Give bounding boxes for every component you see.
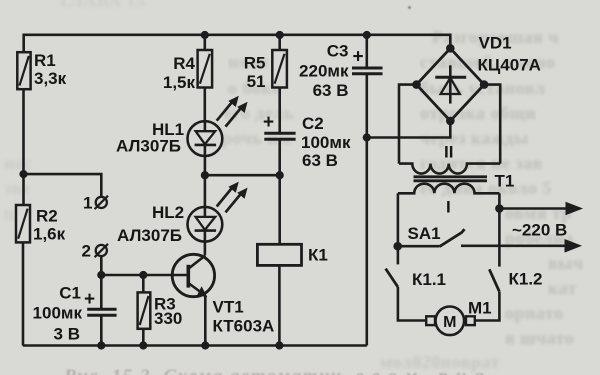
transformer T1 winding II — [399, 164, 500, 174]
arrowhead HL2 lower — [237, 188, 247, 199]
arrowhead HL2 upper — [228, 182, 238, 193]
junction dot node A left — [201, 171, 209, 179]
motor M1 body — [436, 307, 465, 336]
svg-text:63 В: 63 В — [313, 81, 349, 100]
junction dot 220V node — [495, 204, 504, 213]
svg-text:М1: М1 — [468, 299, 492, 318]
wire HL1 to node A — [204, 156, 207, 175]
svg-text:100мк: 100мк — [33, 304, 83, 323]
svg-text:АЛ307Б: АЛ307Б — [117, 226, 182, 245]
svg-text:КТ603А: КТ603А — [213, 317, 275, 336]
wire 220V bottom lead — [461, 245, 566, 248]
wire bridge bottom vertex to C3 column — [367, 121, 451, 138]
svg-text:Т1: Т1 — [495, 172, 515, 191]
svg-text:HL2: HL2 — [152, 203, 184, 222]
svg-text:R4: R4 — [173, 54, 195, 73]
relay coil K1 — [257, 244, 301, 265]
arrowhead 220V bottom — [565, 239, 583, 253]
motor M1 right terminal — [466, 316, 475, 325]
svg-text:R2: R2 — [36, 207, 58, 226]
wire bridge right vertex to winding II right riser — [484, 85, 500, 164]
transformer T1 winding I — [398, 184, 500, 194]
junction dot rectified node — [363, 133, 371, 141]
wire HL2 to VT1 collector — [204, 242, 207, 256]
junction dot R1 R2 terminal1 — [19, 170, 27, 178]
svg-text:КЦ407А: КЦ407А — [478, 56, 541, 75]
contact K1.1 upper lead — [397, 246, 400, 264]
wire base line — [101, 274, 186, 277]
resistor R1 — [17, 52, 30, 89]
svg-text:К1.1: К1.1 — [412, 270, 446, 289]
svg-text:220мк: 220мк — [299, 62, 349, 81]
junction dot SA1 node — [393, 242, 402, 251]
wire K1 to bottom bus — [278, 265, 281, 345]
arrowhead HL1 lower — [237, 102, 247, 113]
wire node A to C2 column — [205, 174, 280, 177]
svg-text:~220 В: ~220 В — [512, 221, 567, 240]
wire C1 bottom stub — [100, 315, 103, 345]
wire R5 to C2 — [278, 88, 281, 134]
resistor R2 — [16, 205, 30, 242]
svg-text:М: М — [443, 314, 456, 331]
contact K1.1 lower lead to motor — [398, 287, 426, 321]
svg-text:К1: К1 — [308, 246, 328, 265]
junction dot base R3 — [139, 271, 147, 279]
svg-text:1,6к: 1,6к — [33, 225, 66, 244]
svg-text:100мк: 100мк — [301, 133, 351, 152]
wire R2 to bottom bus — [22, 242, 25, 345]
wire C1 top stub — [100, 275, 103, 309]
junction dot bridge bottom — [446, 117, 455, 126]
wire R4 to HL1 — [204, 88, 207, 122]
junction dot bridge top — [446, 44, 455, 53]
junction dot bus K1 — [275, 341, 283, 349]
wire terminal 2 to base node — [100, 256, 103, 275]
svg-text:R5: R5 — [244, 54, 266, 73]
wire R3 top stub — [142, 275, 145, 292]
svg-text:С1: С1 — [59, 284, 81, 303]
terminal 1 pin — [96, 197, 107, 208]
capacitor C3 — [352, 68, 383, 74]
capacitor C1 — [87, 309, 116, 315]
svg-text:R1: R1 — [34, 51, 56, 70]
arrowhead HL1 upper — [228, 96, 238, 107]
wire 220V top lead — [499, 207, 567, 210]
svg-text:+: + — [353, 47, 364, 68]
svg-text:51: 51 — [247, 72, 266, 91]
wire right column C3 lower — [365, 75, 368, 346]
transistor VT1 — [172, 254, 214, 296]
junction dot bridge right — [480, 80, 489, 89]
svg-text:VT1: VT1 — [213, 298, 244, 317]
svg-text:II: II — [444, 143, 453, 162]
svg-text:С3: С3 — [327, 42, 349, 61]
contact K1.2 upper lead — [498, 209, 501, 267]
contact K1.1 blade — [386, 269, 398, 287]
svg-text:I: I — [446, 198, 451, 217]
wire branch to terminal 1 — [24, 174, 102, 197]
svg-text:+: + — [263, 112, 274, 133]
wire right column C3 upper — [365, 35, 368, 67]
wire R5 top stub — [278, 35, 281, 50]
junction dot bus VT1 — [201, 341, 209, 349]
contact K1.2 lower lead to motor — [476, 292, 500, 321]
motor M1 left terminal — [426, 316, 435, 325]
svg-text:3,3к: 3,3к — [34, 69, 67, 88]
resistor R4 — [198, 50, 213, 88]
svg-text:С2: С2 — [302, 114, 324, 133]
svg-text:VD1: VD1 — [479, 34, 512, 53]
junction dot node A right — [276, 171, 284, 179]
svg-text:330: 330 — [154, 309, 182, 328]
diode bridge VD1 — [417, 48, 485, 121]
wire bottom bus — [23, 344, 367, 347]
wire bridge left vertex to winding II left riser — [399, 85, 417, 164]
svg-text:1: 1 — [83, 194, 92, 213]
LED HL1 — [188, 121, 223, 156]
wire winding I left riser to SA1 — [397, 193, 400, 246]
junction dot top bus C3 — [363, 31, 371, 39]
junction dot bus C1 — [97, 341, 105, 349]
wire SA1 left segment — [398, 245, 440, 248]
junction dot base left — [97, 271, 105, 279]
svg-text:3 В: 3 В — [54, 325, 80, 344]
svg-text:2: 2 — [82, 242, 91, 261]
svg-text:1,5к: 1,5к — [163, 73, 196, 92]
caption, mostly cut off at bottom — [64, 366, 492, 375]
resistor R3 — [138, 292, 151, 328]
wire winding I right riser to 220V node — [498, 193, 501, 208]
junction dot bridge left — [412, 80, 421, 89]
svg-text:АЛ307Б: АЛ307Б — [116, 137, 181, 156]
bleed-through text layer — [60, 0, 146, 12]
wire R3 bottom stub — [142, 329, 145, 346]
arrowhead VT1 emitter — [197, 286, 207, 297]
wire C2 to K1 — [278, 139, 281, 244]
terminal 2 pin — [96, 245, 107, 256]
transformer T1 core — [414, 177, 488, 181]
wire R4 top stub — [204, 35, 207, 50]
arrowhead 220V top — [566, 202, 584, 216]
LED HL2 — [188, 207, 223, 242]
capacitor C2 — [264, 133, 295, 139]
svg-text:+: + — [84, 289, 95, 310]
wire R1 to R2 column — [22, 89, 25, 205]
contact K1.2 blade — [489, 269, 499, 291]
resistor R5 — [272, 50, 287, 88]
junction dot bus R3 — [139, 341, 147, 349]
svg-text:К1.2: К1.2 — [509, 270, 543, 289]
switch SA1 blade — [440, 229, 465, 246]
junction dot top bus R5 — [276, 31, 284, 39]
LED HL1 arrows — [217, 102, 233, 121]
junction dot top bus R4 — [201, 31, 209, 39]
wire node A to HL2 — [204, 175, 207, 207]
svg-text:SA1: SA1 — [408, 224, 441, 243]
wire top supply bus — [24, 35, 451, 52]
LED HL2 arrows — [217, 187, 233, 206]
wire VT1 emitter to bottom bus — [204, 296, 207, 346]
svg-text:63 В: 63 В — [302, 151, 338, 170]
